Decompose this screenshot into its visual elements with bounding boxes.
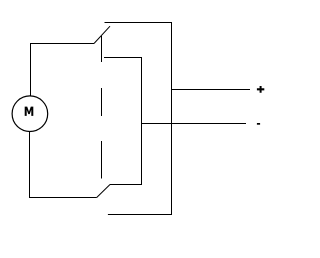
wire motor top terminal to switch pole 1 common xyxy=(31,44,95,97)
wire net plus: pole 1 upper contact, right bus, pole 2 lower contact xyxy=(105,23,172,215)
wire plus output lead xyxy=(172,89,251,91)
terminal label - xyxy=(257,123,260,125)
mechanical linkage dash 3 xyxy=(101,141,103,179)
switch S1 pole 2 blade xyxy=(97,185,110,198)
terminal label + xyxy=(257,86,264,93)
wire net minus: pole 1 lower contact, middle bus, pole 2 upper contact xyxy=(104,58,142,185)
switch S1 pole 1 blade xyxy=(94,26,110,43)
wire motor bottom terminal to switch pole 2 common xyxy=(30,132,97,198)
mechanical linkage dash 1 xyxy=(101,36,103,62)
motor label M xyxy=(25,107,34,116)
mechanical linkage dash 2 xyxy=(101,88,103,116)
wire minus output lead xyxy=(142,123,247,125)
motor M circle xyxy=(12,96,48,132)
